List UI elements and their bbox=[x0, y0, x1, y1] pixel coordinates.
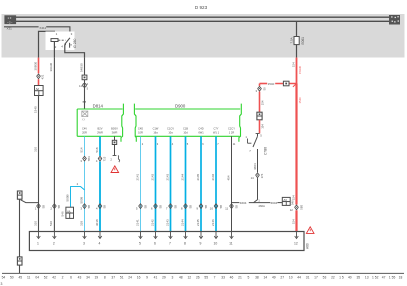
svg-text:44: 44 bbox=[297, 276, 301, 280]
svg-text:2143: 2143 bbox=[165, 173, 169, 180]
svg-text:2141: 2141 bbox=[135, 173, 139, 180]
svg-text:C1W: C1W bbox=[153, 127, 159, 131]
svg-text:50: 50 bbox=[10, 276, 14, 280]
svg-text:6: 6 bbox=[70, 276, 72, 280]
connector inline plug small bbox=[112, 140, 116, 144]
svg-text:40: 40 bbox=[348, 276, 352, 280]
svg-text:4604: 4604 bbox=[271, 201, 278, 205]
svg-text:49: 49 bbox=[272, 276, 276, 280]
svg-text:11: 11 bbox=[229, 241, 233, 245]
warning triangle right bbox=[306, 227, 314, 234]
svg-text:7: 7 bbox=[166, 207, 168, 211]
ECU pin 7 bbox=[170, 232, 172, 238]
svg-text:154: 154 bbox=[291, 219, 295, 224]
svg-text:7: 7 bbox=[169, 241, 171, 245]
svg-text:1540: 1540 bbox=[33, 106, 37, 113]
svg-text:50: 50 bbox=[262, 87, 266, 91]
svg-text:1 5: 1 5 bbox=[339, 276, 344, 280]
svg-text:3: 3 bbox=[83, 241, 85, 245]
svg-text:2142: 2142 bbox=[150, 173, 154, 180]
svg-text:C4V: C4V bbox=[82, 127, 87, 131]
svg-text:C1B: C1B bbox=[183, 127, 188, 131]
ECU pin 1 bbox=[38, 232, 40, 238]
svg-text:5B: 5B bbox=[219, 205, 223, 209]
svg-text:154: 154 bbox=[291, 62, 295, 67]
svg-text:47: 47 bbox=[382, 276, 386, 280]
svg-text:2: 2 bbox=[110, 157, 112, 161]
svg-text:176: 176 bbox=[260, 173, 264, 178]
svg-text:52: 52 bbox=[44, 276, 48, 280]
ground rail / ruler bbox=[2, 272, 404, 274]
wire D900 pin5 cyan bbox=[200, 136, 202, 231]
svg-text:1 55: 1 55 bbox=[389, 276, 396, 280]
wire ground drop bbox=[19, 199, 21, 273]
svg-text:13: 13 bbox=[365, 276, 369, 280]
svg-text:7: 7 bbox=[249, 149, 251, 153]
svg-text:510: 510 bbox=[49, 221, 53, 226]
wire cyan branch to junction block bbox=[71, 187, 85, 208]
svg-text:XX: XX bbox=[82, 118, 86, 122]
wire red feed to junction block F bbox=[38, 58, 40, 74]
svg-text:E061: E061 bbox=[301, 37, 305, 45]
svg-text:1: 1 bbox=[37, 241, 39, 245]
svg-text:1 F: 1 F bbox=[8, 16, 12, 20]
svg-text:51: 51 bbox=[120, 276, 124, 280]
svg-text:04: 04 bbox=[35, 276, 39, 280]
ECU pin 8 bbox=[185, 232, 187, 238]
wire D900 pin3 cyan bbox=[170, 136, 172, 231]
svg-text:54B30: 54B30 bbox=[79, 63, 83, 72]
svg-text:21: 21 bbox=[238, 276, 242, 280]
svg-text:8: 8 bbox=[181, 207, 183, 211]
svg-text:14: 14 bbox=[263, 276, 267, 280]
svg-text:6: 6 bbox=[202, 142, 204, 146]
svg-text:4: 4 bbox=[172, 142, 174, 146]
wire bus line A (30) bbox=[16, 16, 389, 18]
svg-text:3: 3 bbox=[256, 89, 258, 93]
svg-text:27: 27 bbox=[280, 276, 284, 280]
relay G280 body bbox=[46, 32, 75, 51]
svg-text:6W1: 6W1 bbox=[198, 130, 204, 134]
relay G280 mechanical link (dashed) bbox=[58, 39, 65, 41]
svg-text:43: 43 bbox=[78, 276, 82, 280]
svg-text:2: 2 bbox=[142, 142, 144, 146]
svg-text:2145: 2145 bbox=[196, 173, 200, 180]
fuse E061 bbox=[294, 37, 299, 45]
svg-text:10R: 10R bbox=[138, 130, 143, 134]
svg-text:5B: 5B bbox=[234, 205, 238, 209]
svg-text:48: 48 bbox=[179, 276, 183, 280]
connector inline pin 14 bbox=[256, 173, 260, 175]
ECU pin 3 bbox=[84, 232, 86, 238]
svg-text:W1 1: W1 1 bbox=[213, 130, 220, 134]
svg-text:16a: 16a bbox=[153, 130, 158, 134]
svg-text:10: 10 bbox=[214, 241, 218, 245]
svg-text:2143: 2143 bbox=[165, 219, 169, 226]
svg-text:5B5: 5B5 bbox=[299, 204, 303, 209]
svg-text:5B: 5B bbox=[173, 205, 177, 209]
svg-text:4604: 4604 bbox=[240, 201, 247, 205]
svg-text:2: 2 bbox=[62, 276, 64, 280]
svg-text:7: 7 bbox=[217, 142, 219, 146]
wire fuse feed from bus B bbox=[296, 21, 298, 36]
svg-text:8: 8 bbox=[104, 276, 106, 280]
svg-text:ʌʌ: ʌʌ bbox=[284, 198, 288, 202]
svg-text:3WR: 3WR bbox=[112, 130, 118, 134]
svg-text:310: 310 bbox=[33, 147, 37, 152]
svg-text:5: 5 bbox=[87, 86, 89, 90]
ECU pin 6 bbox=[155, 232, 157, 238]
svg-text:2145: 2145 bbox=[196, 219, 200, 226]
svg-text:12: 12 bbox=[290, 208, 294, 212]
connector ground lower bbox=[17, 257, 22, 265]
svg-text:X411: X411 bbox=[39, 26, 46, 30]
svg-text:2146: 2146 bbox=[211, 219, 215, 226]
svg-text:5B: 5B bbox=[158, 205, 162, 209]
svg-text:9: 9 bbox=[146, 276, 148, 280]
node wire end tick bbox=[83, 101, 86, 103]
svg-text:6: 6 bbox=[154, 241, 156, 245]
relay G280 coil bbox=[51, 39, 58, 42]
svg-text:5B: 5B bbox=[143, 205, 147, 209]
wire link 4604 bbox=[232, 202, 240, 204]
svg-text:41: 41 bbox=[154, 276, 158, 280]
svg-text:11: 11 bbox=[233, 142, 236, 146]
wire switch output bbox=[257, 149, 259, 172]
svg-text:4: 4 bbox=[98, 241, 100, 245]
svg-text:514: 514 bbox=[79, 147, 83, 152]
svg-text:39A30: 39A30 bbox=[49, 62, 53, 71]
wire relay coil feed loop bbox=[39, 31, 55, 57]
svg-text:31: 31 bbox=[306, 276, 310, 280]
connector X pin 8 inline bbox=[184, 204, 188, 206]
svg-text:518: 518 bbox=[95, 147, 99, 152]
svg-text:5B: 5B bbox=[103, 205, 107, 209]
svg-text:C4D: C4D bbox=[198, 127, 203, 131]
svg-text:37: 37 bbox=[111, 276, 115, 280]
wire left ground branch down bbox=[38, 96, 40, 232]
svg-text:1: 1 bbox=[258, 198, 260, 202]
svg-text:55: 55 bbox=[204, 276, 208, 280]
svg-text:C2CY: C2CY bbox=[228, 127, 235, 131]
ECU pin 5 bbox=[140, 232, 142, 238]
svg-text:12: 12 bbox=[187, 276, 191, 280]
node branch junction bbox=[293, 84, 297, 87]
node wire end terminal bbox=[113, 155, 117, 157]
svg-text:1 52: 1 52 bbox=[372, 276, 379, 280]
svg-text:1540: 1540 bbox=[268, 82, 275, 86]
svg-text:∼2∼: ∼2∼ bbox=[7, 20, 14, 24]
svg-text:5B: 5B bbox=[57, 205, 61, 209]
svg-text:1 2R: 1 2R bbox=[229, 130, 235, 134]
connector X pin 11 inline bbox=[230, 204, 234, 206]
svg-text:45: 45 bbox=[18, 276, 22, 280]
svg-text:B2V: B2V bbox=[98, 127, 103, 131]
connector inline pin 4 upper bbox=[98, 156, 102, 158]
connector X pin 1 inline bbox=[37, 204, 41, 206]
svg-text:11: 11 bbox=[225, 207, 228, 211]
ECU pin 11 bbox=[231, 232, 233, 238]
svg-text:10: 10 bbox=[210, 207, 214, 211]
svg-text:1540: 1540 bbox=[298, 97, 302, 104]
connector X pin 9 inline bbox=[199, 204, 203, 206]
svg-text:715: 715 bbox=[103, 156, 107, 161]
node Y junction bbox=[254, 200, 258, 203]
svg-text:C1CV: C1CV bbox=[167, 127, 174, 131]
connector X pin 3 inline bbox=[83, 204, 87, 206]
svg-text:5008: 5008 bbox=[79, 196, 83, 203]
svg-text:7: 7 bbox=[214, 276, 216, 280]
connector inline plug bbox=[82, 75, 87, 80]
ECU pin 2 bbox=[53, 232, 55, 238]
svg-text:2: 2 bbox=[53, 241, 55, 245]
svg-text:D 923: D 923 bbox=[195, 5, 208, 10]
svg-text:2144: 2144 bbox=[180, 219, 184, 226]
svg-text:18: 18 bbox=[399, 276, 403, 280]
svg-text:4: 4 bbox=[96, 159, 98, 163]
svg-text:4: 4 bbox=[87, 82, 89, 86]
connector branch top chevron bbox=[259, 84, 261, 86]
svg-text:34: 34 bbox=[86, 276, 90, 280]
junction block right bbox=[282, 197, 290, 205]
ECU main box bbox=[29, 232, 304, 251]
wire D900 pin2 cyan bbox=[155, 136, 157, 231]
svg-text:3: 3 bbox=[171, 276, 173, 280]
svg-text:5: 5 bbox=[260, 133, 262, 137]
svg-text:5: 5 bbox=[247, 276, 249, 280]
connector X pin 6 inline bbox=[154, 204, 158, 206]
svg-text:14: 14 bbox=[251, 176, 255, 180]
node D814 top pin symbol bbox=[82, 111, 88, 117]
svg-text:46: 46 bbox=[230, 276, 234, 280]
relay G280 switch arm bbox=[65, 38, 70, 44]
svg-text:10a: 10a bbox=[168, 130, 173, 134]
svg-text:30B30: 30B30 bbox=[33, 61, 37, 70]
wire D900 pin7 dark bbox=[231, 136, 233, 231]
svg-text:9: 9 bbox=[196, 207, 198, 211]
connector X pin 7 inline bbox=[169, 204, 173, 206]
connector X pin 12 inline bbox=[295, 205, 299, 207]
node solder splice bbox=[83, 84, 87, 88]
wire line C to relay pin 3 bbox=[4, 26, 39, 28]
connector block left (bus source) bbox=[4, 15, 16, 24]
wire red branch horizontal bbox=[260, 83, 268, 85]
svg-text:26: 26 bbox=[196, 276, 200, 280]
svg-text:17: 17 bbox=[314, 276, 318, 280]
svg-text:2142: 2142 bbox=[150, 219, 154, 226]
wire bus line B (15) bbox=[16, 20, 389, 22]
svg-text:4604: 4604 bbox=[253, 163, 257, 170]
connector block right (bus end) bbox=[389, 15, 400, 25]
svg-text:3: 3 bbox=[1, 282, 3, 286]
wire relay pin 2 to ECU pin 2 bbox=[53, 58, 55, 232]
ECU pin 10 bbox=[215, 232, 217, 238]
svg-text:53: 53 bbox=[323, 276, 327, 280]
ECU pin 12 bbox=[296, 232, 298, 238]
svg-text:C4D: C4D bbox=[138, 127, 143, 131]
svg-text:7,5A: 7,5A bbox=[290, 37, 294, 43]
wire D900 pin6 cyan bbox=[215, 136, 217, 231]
svg-text:35: 35 bbox=[356, 276, 360, 280]
svg-text:3: 3 bbox=[80, 159, 82, 163]
svg-text:460A: 460A bbox=[258, 204, 265, 208]
svg-text:7B4: 7B4 bbox=[87, 156, 91, 161]
svg-text:20R: 20R bbox=[82, 130, 87, 134]
connector inline plug on branch drop bbox=[257, 112, 262, 120]
svg-text:29: 29 bbox=[162, 276, 166, 280]
svg-text:D900: D900 bbox=[175, 104, 186, 109]
switch C7B8 bbox=[256, 133, 260, 135]
svg-text:154: 154 bbox=[260, 100, 264, 105]
svg-text:2: 2 bbox=[50, 207, 52, 211]
connector X pin 4 inline bbox=[98, 204, 102, 206]
svg-text:22: 22 bbox=[331, 276, 335, 280]
connector D900 housing bbox=[134, 104, 136, 142]
svg-text:5B: 5B bbox=[42, 205, 46, 209]
svg-text:5: 5 bbox=[136, 207, 138, 211]
warning triangle left bbox=[111, 166, 119, 173]
svg-text:3: 3 bbox=[80, 207, 82, 211]
svg-text:2WR: 2WR bbox=[97, 130, 103, 134]
svg-text:2144: 2144 bbox=[180, 173, 184, 180]
wire relay pin 4 output bbox=[65, 45, 85, 58]
wire D814 pin1 cyan bbox=[84, 136, 86, 156]
svg-text:10d: 10d bbox=[183, 130, 188, 134]
svg-text:24: 24 bbox=[128, 276, 132, 280]
svg-text:431: 431 bbox=[41, 74, 45, 79]
svg-text:318: 318 bbox=[79, 221, 83, 226]
connector X pin 5 inline bbox=[139, 204, 143, 206]
connector inline on red feed bbox=[37, 74, 41, 76]
svg-text:500B: 500B bbox=[65, 194, 69, 201]
svg-text:2146: 2146 bbox=[211, 173, 215, 180]
svg-text:1: 1 bbox=[245, 135, 247, 139]
svg-text:2: 2 bbox=[77, 182, 79, 186]
svg-text:5: 5 bbox=[187, 142, 189, 146]
svg-text:B0SV: B0SV bbox=[111, 127, 118, 131]
svg-text:12: 12 bbox=[294, 241, 298, 245]
junction block F left bbox=[35, 86, 44, 96]
svg-text:C7Y: C7Y bbox=[213, 127, 218, 131]
wire D814 pin2 cyan thick bbox=[99, 136, 101, 156]
svg-text:8: 8 bbox=[184, 241, 186, 245]
svg-text:5B: 5B bbox=[204, 205, 208, 209]
svg-text:A80: A80 bbox=[305, 243, 309, 249]
wire D900 pin1 cyan bbox=[140, 136, 142, 231]
connector inline pin 3 upper bbox=[83, 156, 87, 158]
svg-text:C7B8: C7B8 bbox=[263, 147, 267, 155]
svg-text:310: 310 bbox=[33, 221, 37, 226]
wire red main bbox=[296, 58, 298, 84]
svg-text:6: 6 bbox=[151, 207, 153, 211]
wire D814 pin3 screened bbox=[114, 136, 116, 140]
svg-text:2141: 2141 bbox=[135, 219, 139, 226]
svg-text:9: 9 bbox=[199, 241, 201, 245]
svg-text:454: 454 bbox=[226, 175, 230, 180]
relay G280 spare contact bbox=[69, 43, 71, 48]
connector D814 housing bbox=[76, 109, 78, 136]
svg-text:16: 16 bbox=[137, 276, 141, 280]
connector inline plug on branch bbox=[283, 81, 289, 86]
svg-text:1: 1 bbox=[35, 207, 37, 211]
svg-text:11: 11 bbox=[27, 276, 31, 280]
svg-text:4: 4 bbox=[96, 207, 98, 211]
junction block centre bbox=[66, 207, 74, 218]
svg-text:154: 154 bbox=[291, 195, 295, 200]
ECU pin 9 bbox=[200, 232, 202, 238]
svg-text:3018: 3018 bbox=[95, 219, 99, 226]
svg-text:5B: 5B bbox=[188, 205, 192, 209]
svg-text:154: 154 bbox=[260, 124, 264, 129]
wire relay pin 4 to D814 bbox=[84, 58, 86, 76]
svg-text:33: 33 bbox=[221, 276, 225, 280]
ECU pin 4 bbox=[99, 232, 101, 238]
svg-text:19: 19 bbox=[94, 276, 98, 280]
svg-text:14: 14 bbox=[79, 84, 82, 88]
connector ground upper bbox=[17, 191, 22, 199]
connector X pin 10 inline bbox=[214, 204, 218, 206]
svg-text:15A30: 15A30 bbox=[298, 65, 302, 74]
svg-text:ʌʌ: ʌʌ bbox=[36, 87, 40, 91]
svg-text:5: 5 bbox=[139, 241, 141, 245]
svg-text:38: 38 bbox=[255, 276, 259, 280]
svg-text:5B: 5B bbox=[87, 205, 91, 209]
svg-text:ʌʌ: ʌʌ bbox=[67, 209, 71, 213]
wire D900 pin4 cyan bbox=[185, 136, 187, 231]
svg-text:3: 3 bbox=[157, 142, 159, 146]
svg-text:10: 10 bbox=[289, 276, 293, 280]
svg-text:G 280: G 280 bbox=[73, 38, 77, 47]
svg-text:D814: D814 bbox=[93, 104, 104, 109]
svg-text:546: 546 bbox=[61, 211, 65, 216]
svg-text:54: 54 bbox=[2, 276, 6, 280]
svg-text:42: 42 bbox=[52, 276, 56, 280]
connector X pin 2 inline bbox=[53, 204, 57, 206]
fuse box band bbox=[2, 14, 405, 58]
